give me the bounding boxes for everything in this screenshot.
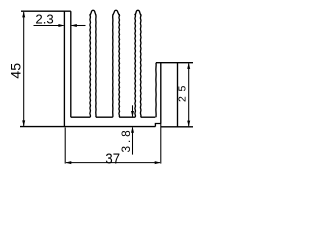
svg-text:2.3: 2.3 xyxy=(35,11,53,26)
wire: fin 4 left serrated edge xyxy=(134,14,137,117)
node L: dimension 37 line with arrows xyxy=(66,162,160,164)
node N: dimension 3.8 line with arrows xyxy=(132,105,134,116)
node A: fin 2 left serrated edge xyxy=(89,14,92,117)
svg-text:45: 45 xyxy=(8,63,24,79)
wire: slot 2 bottom xyxy=(96,116,113,118)
node K: dimension 37 extension lines xyxy=(64,128,66,164)
wire: fin 3 right serrated edge xyxy=(118,14,121,117)
node G: dimension 2.3 lines with arrows xyxy=(34,25,64,27)
wire: slot 4 bottom xyxy=(141,116,156,118)
wire: base bottom right edge with extension for 25 dim xyxy=(161,126,193,128)
wire: step block top edge with right extension for 25 dim xyxy=(156,62,193,64)
heatsink extrusion profile drawing xyxy=(0,0,210,170)
node I: dimension 25 vertical line with arrows xyxy=(188,63,190,126)
wire: bottom notch xyxy=(155,124,160,127)
wire: profile right edge xyxy=(177,63,179,127)
svg-text:3.8: 3.8 xyxy=(119,127,133,152)
node E: dimension 45 vertical line with arrows xyxy=(23,12,25,126)
wire: fin 2 right serrated edge xyxy=(95,14,97,117)
svg-text:25: 25 xyxy=(177,81,189,102)
wire: top edge of fin 1 with left extension for 45 dim xyxy=(21,10,71,12)
node C: fin 3 rounded cap xyxy=(113,10,119,15)
wire: fin 1 left edge / profile left wall xyxy=(63,11,65,126)
node D: fin 4 rounded cap xyxy=(135,10,141,15)
wire: slot 1 bottom xyxy=(71,116,90,118)
wire: fin 1 right edge xyxy=(70,11,72,117)
wire: fin 4 right serrated edge xyxy=(139,14,142,117)
wire: fin 3 left edge xyxy=(112,14,114,117)
svg-text:37: 37 xyxy=(105,151,120,167)
wire: step block left wall xyxy=(155,63,157,117)
wire: step block inner vertical edge xyxy=(160,63,162,124)
node B: fin 2 rounded cap xyxy=(90,10,96,15)
wire: base bottom edge with left extension for 45 dim xyxy=(20,126,155,128)
wire: slot 3 bottom xyxy=(119,116,135,118)
